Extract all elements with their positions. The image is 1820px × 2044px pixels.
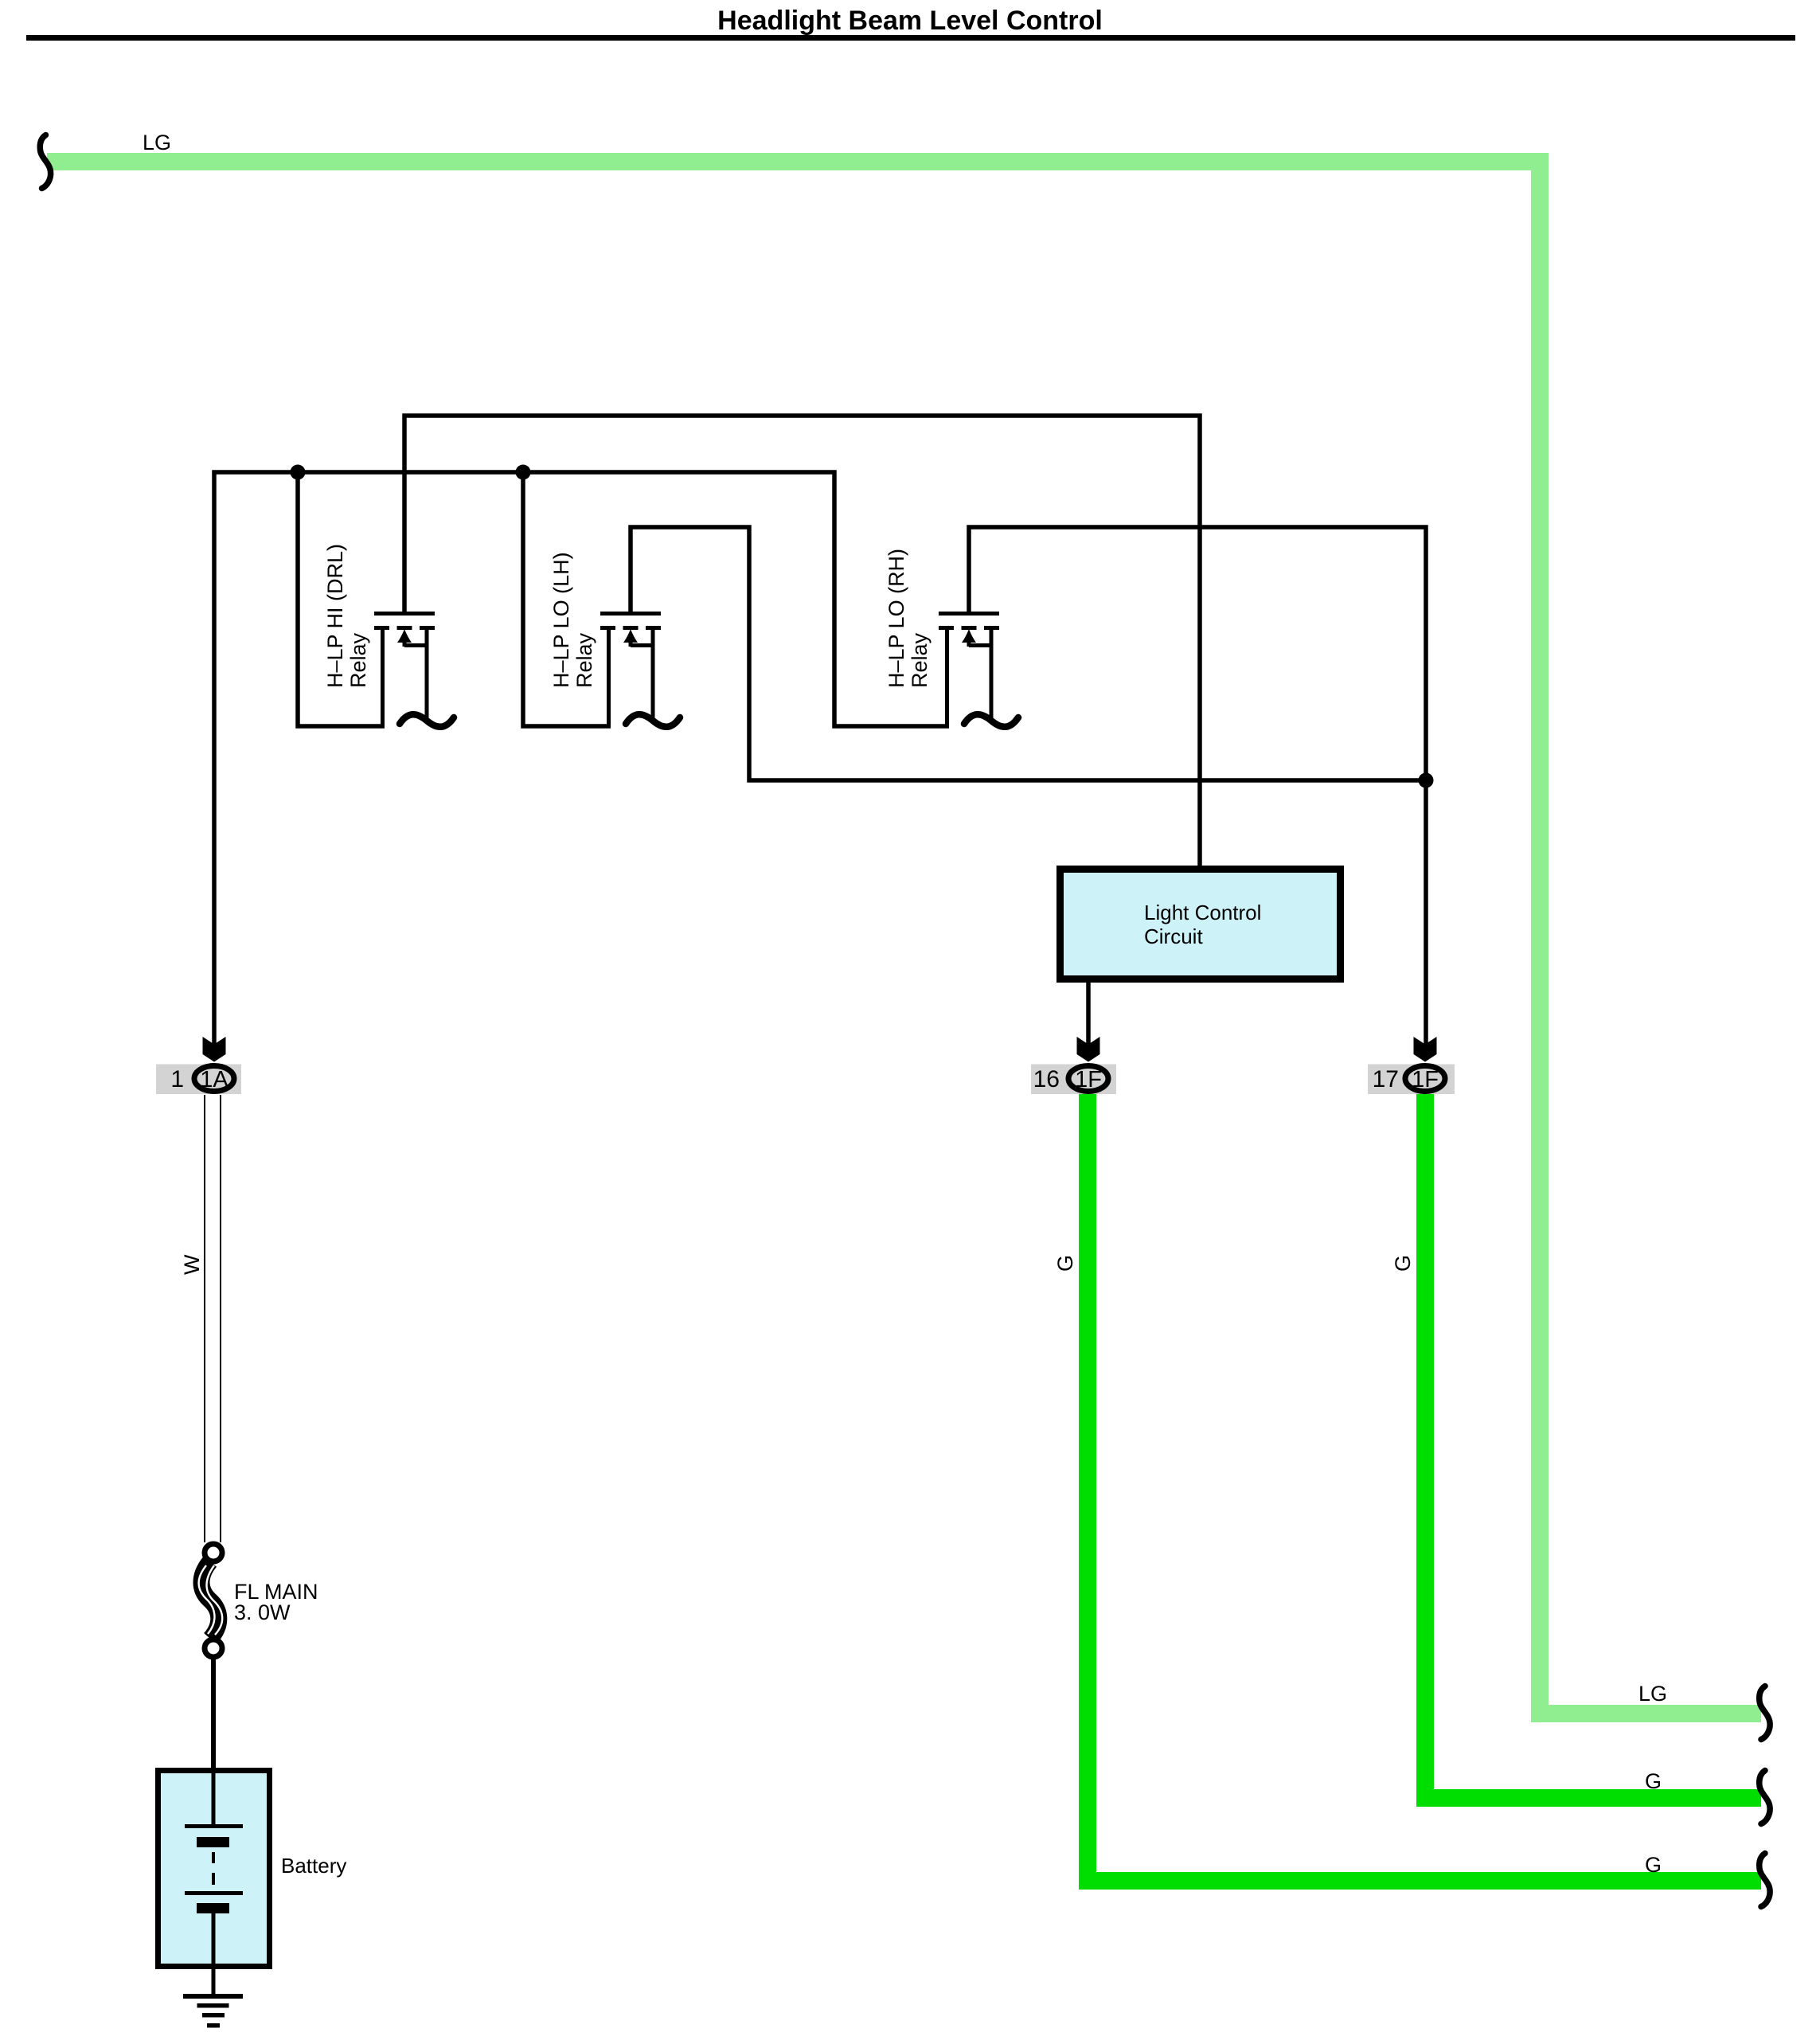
svg-text:16: 16	[1033, 1066, 1060, 1092]
svg-text:G: G	[1391, 1255, 1415, 1272]
relay U1 H-LP HI (DRL) Relay	[374, 612, 454, 727]
svg-text:Circuit: Circuit	[1144, 924, 1203, 948]
off-page squiggle left end of LG wire	[40, 135, 50, 189]
svg-text:1A: 1A	[200, 1067, 228, 1092]
connector 1A label plate	[156, 1065, 241, 1095]
svg-text:H–LP LO (LH)Relay: H–LP LO (LH)Relay	[549, 552, 596, 688]
svg-text:H–LP HI (DRL)Relay: H–LP HI (DRL)Relay	[323, 544, 370, 688]
svg-text:Headlight Beam Level Control: Headlight Beam Level Control	[717, 6, 1103, 36]
svg-text:17: 17	[1373, 1066, 1399, 1092]
wire G from connector 16 to bottom-right squiggle	[1088, 1094, 1761, 1881]
connector 1A arrow	[203, 1037, 226, 1062]
svg-text:1F: 1F	[1075, 1067, 1102, 1092]
wire fusible link to battery	[211, 1659, 216, 1771]
connector 16 1F oval	[1068, 1066, 1108, 1092]
wire relay 1 frame	[298, 472, 385, 726]
wire battery to ground	[212, 1969, 216, 1997]
off-page squiggle right end of LG wire	[1759, 1686, 1770, 1740]
junction node at connector 17 line	[1419, 773, 1434, 788]
off-page squiggle right end of G wire from 17	[1759, 1771, 1770, 1824]
connector 16 1F label plate	[1031, 1065, 1116, 1095]
svg-text:LG: LG	[143, 131, 171, 154]
battery	[158, 1771, 270, 1970]
connector 17 1F arrow	[1414, 1037, 1437, 1062]
wire relay 3 gate down to connector 17	[969, 527, 1426, 1045]
wire relay 2 gate to junction at connector 17 line	[631, 527, 1426, 780]
fusible link FL MAIN 3.0W	[199, 1544, 223, 1657]
connector 17 1F oval	[1405, 1066, 1445, 1092]
wire relay 2 frame	[523, 472, 611, 726]
svg-text:G: G	[1645, 1853, 1662, 1877]
title rule	[26, 35, 1795, 41]
wire G from connector 17 to bottom-right squiggle	[1425, 1094, 1761, 1798]
connector 17 1F label plate	[1368, 1065, 1455, 1095]
relay U3 H-LP LO (RH) Relay	[939, 612, 1018, 727]
svg-text:1F: 1F	[1412, 1067, 1439, 1092]
svg-text:Light Control: Light Control	[1144, 901, 1261, 924]
svg-text:1: 1	[170, 1066, 184, 1092]
connector 16 1F arrow	[1077, 1037, 1100, 1062]
svg-text:W: W	[180, 1254, 204, 1275]
junction node on bus at relay 2	[516, 465, 531, 480]
relay U2 H-LP LO (LH) Relay	[600, 612, 680, 727]
svg-text:G: G	[1645, 1769, 1662, 1793]
junction node on bus at relay 1	[291, 465, 306, 480]
off-page squiggle right end of G wire from 16	[1759, 1854, 1770, 1907]
svg-text:3. 0W: 3. 0W	[234, 1600, 291, 1624]
svg-text:Battery: Battery	[281, 1854, 346, 1878]
wire LG from left squiggle to bottom-right squiggle	[47, 162, 1761, 1714]
connector 1A oval	[194, 1066, 234, 1092]
svg-text:G: G	[1053, 1255, 1077, 1272]
Light Control Circuit box	[1060, 870, 1341, 979]
svg-text:LG: LG	[1638, 1682, 1667, 1706]
wire W white from connector 1A to fusible link	[204, 1095, 205, 1542]
wire battery feed bus: connector 1A up, across, down to relay 3 source	[214, 472, 949, 1045]
svg-text:H–LP LO (RH)Relay: H–LP LO (RH)Relay	[885, 549, 931, 688]
wire relay 1 gate to Light Control Circuit top	[404, 416, 1200, 866]
ground	[183, 1994, 243, 2028]
wire Light Control Circuit bottom to connector 16	[1086, 983, 1091, 1045]
